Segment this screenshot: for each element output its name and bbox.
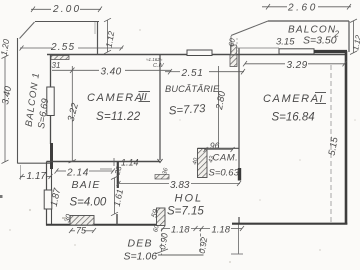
wall: balcon2 top edge <box>268 20 349 22</box>
svg-text:3.15: 3.15 <box>276 37 295 48</box>
leader arrow S=1.06 <box>155 249 168 254</box>
wall: bucatarie / camera I <box>238 48 240 168</box>
dimension 1.12 balcon1 depth <box>104 18 111 54</box>
wall: baie top inner face <box>100 168 112 170</box>
pier: cos hatched block below top wall <box>230 55 237 67</box>
wall: baie right / hol <box>117 162 119 189</box>
wall: deb left edge <box>161 229 163 256</box>
wall: CAM closet top <box>198 147 240 149</box>
wall: balcon1 right edge <box>97 22 99 55</box>
wall: left exterior thick joint <box>50 143 53 169</box>
window: camera I to balcon2 <box>279 49 314 54</box>
wall: baie bottom exterior <box>46 224 158 226</box>
wall: left exterior lower inner face <box>51 169 53 226</box>
dimension 5.15 camera I height <box>330 65 332 222</box>
svg-text:1.18: 1.18 <box>171 225 190 236</box>
svg-text:2.14: 2.14 <box>66 168 89 179</box>
pier: hol sw hatched <box>157 208 166 226</box>
svg-text:S=0.63: S=0.63 <box>209 168 240 179</box>
wall: balcon2 right edge <box>348 21 350 52</box>
wall: CAM closet hatched left <box>198 149 208 178</box>
dimension 2.60 balcon2 width <box>262 4 351 10</box>
junction: wall foot flare <box>158 159 163 163</box>
dimension 3.40 camera II width <box>52 66 171 75</box>
svg-text:31: 31 <box>52 61 61 70</box>
dimension 1.61 baie door wall <box>111 176 118 216</box>
wall: deb bottom edge <box>158 254 204 256</box>
svg-text:3.83: 3.83 <box>170 180 190 191</box>
window: baie left <box>44 190 52 209</box>
wall: right exterior <box>345 51 348 225</box>
svg-text:DEB: DEB <box>128 238 153 250</box>
svg-text:2.00: 2.00 <box>52 4 81 15</box>
window: camera II top hatched sill <box>51 56 69 60</box>
svg-text:HOL: HOL <box>175 193 204 205</box>
wall: balcon1 diagonal corner <box>20 22 35 39</box>
svg-text:S=4.00: S=4.00 <box>70 197 107 209</box>
wall: camera II bottom / baie top <box>47 161 161 163</box>
dimension 2.80 bucatarie height <box>218 66 220 148</box>
wire: foot tick <box>231 253 243 255</box>
wall: deb right edge <box>200 229 202 254</box>
dimension 3.83 hol length <box>117 181 242 186</box>
svg-text:1.14: 1.14 <box>121 158 139 168</box>
pier: balcon2 left jamb <box>231 45 237 55</box>
svg-text:S=16.84: S=16.84 <box>272 112 315 124</box>
dimension chain 1.18 1.18 <box>161 226 244 231</box>
dimension .75 pier width <box>69 228 96 233</box>
wall: balcon1 bottom edge <box>18 162 51 164</box>
door jamb: hol to camera I thick <box>238 168 241 181</box>
svg-text:CAMERA: CAMERA <box>87 92 144 104</box>
svg-text:≈1.162≈: ≈1.162≈ <box>146 57 163 62</box>
noise: left edge mark <box>0 195 3 198</box>
svg-text:2.60: 2.60 <box>287 3 318 14</box>
wall: balcon2 parapet thick right <box>314 50 347 53</box>
dimension 3.40 far left balcon height <box>2 55 9 164</box>
wall: balcon2 inner parapet line <box>237 47 279 49</box>
svg-text:BAIE: BAIE <box>72 179 101 191</box>
dimension .96 cam width <box>204 147 235 152</box>
svg-text:S=1.06: S=1.06 <box>124 251 158 263</box>
svg-text:BALCON: BALCON <box>288 25 336 36</box>
wall: balcon1 right edge inner <box>94 22 96 34</box>
wall: baie right lower <box>116 214 118 225</box>
dimension 2.00 top left <box>31 7 102 13</box>
wall: left exterior lower outer face <box>46 162 48 226</box>
svg-text:3.40: 3.40 <box>101 67 122 78</box>
svg-text:75: 75 <box>76 226 87 236</box>
pier: baie bottom hatched <box>70 216 94 226</box>
svg-text:2.51: 2.51 <box>181 68 204 79</box>
dimension 3.29 camera I width <box>243 61 347 66</box>
svg-text:S=3.50: S=3.50 <box>303 35 337 47</box>
sill: baie door threshold hatched <box>155 175 169 180</box>
wall: left exterior upper <box>50 55 52 89</box>
dimension 1.14 on camera II bottom wall <box>113 158 115 166</box>
wire: dim extension below camera I wall <box>238 224 240 254</box>
svg-text:CAM.: CAM. <box>213 153 239 164</box>
wall: left exterior mid <box>50 116 52 145</box>
svg-text:2.55: 2.55 <box>50 42 75 53</box>
svg-text:S=11.22: S=11.22 <box>96 111 141 123</box>
dimension 3.22 camera II height <box>71 75 73 162</box>
svg-text:3.29: 3.29 <box>287 60 308 71</box>
wall: balcon1 left edge <box>17 38 19 164</box>
dimension .60 at cos <box>230 36 232 54</box>
dimension 1.12 balcon2 right <box>350 19 357 55</box>
dimension 1.17 balcon width <box>20 174 53 179</box>
svg-text:C.IV: C.IV <box>153 63 165 69</box>
wall: top exterior <box>47 54 346 56</box>
wall: bottom camera I / hol <box>232 223 347 225</box>
svg-text:CAMERA: CAMERA <box>263 93 320 105</box>
svg-text:1.18: 1.18 <box>212 225 231 236</box>
wall: camera II / bucatarie <box>159 55 161 161</box>
window: camera II left (to balcon1) <box>47 87 54 116</box>
svg-text:BUCĂTĂRIE: BUCĂTĂRIE <box>165 84 220 94</box>
dimension 2.55 <box>20 46 124 51</box>
svg-text:2: 2 <box>334 30 340 39</box>
noise: smudge bottom left <box>62 217 66 219</box>
dimension 2.14 baie width <box>55 168 116 173</box>
window: bucatarie top <box>187 50 212 56</box>
wire: balcon1 dim extension left <box>20 165 22 180</box>
svg-text:1.17: 1.17 <box>27 171 47 182</box>
svg-text:S=7.15: S=7.15 <box>167 206 204 218</box>
wall: camera I left lower <box>238 217 240 224</box>
svg-text:.96: .96 <box>208 141 220 151</box>
dimension 2.51 bucatarie width <box>165 69 245 74</box>
wall: balcon2 diagonal <box>231 21 268 36</box>
wall: balcon1 top edge <box>35 21 99 23</box>
